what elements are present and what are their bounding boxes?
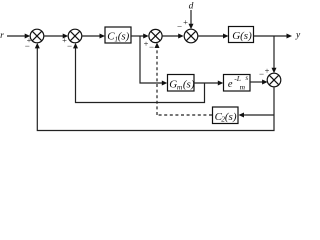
svg-text:+: + <box>265 65 270 75</box>
wire S4 to block G <box>198 34 229 39</box>
svg-text:+: + <box>183 17 188 27</box>
wire d to summer S4 <box>189 10 194 29</box>
summing junction S3 <box>149 29 162 42</box>
svg-text:−: − <box>177 22 182 32</box>
wire Gm to delay block <box>194 81 223 86</box>
svg-text:−: − <box>259 69 264 79</box>
svg-text:y: y <box>295 31 301 41</box>
wire G to output y <box>254 34 293 39</box>
wire outer loop S5 down and back to S1 <box>35 43 274 131</box>
node r (reference input label) <box>0 31 4 41</box>
wire inner loop Gm output down and back to S2 <box>73 43 205 103</box>
summing junction S2 <box>68 29 82 43</box>
wire S1 to summer S2 <box>44 34 68 39</box>
svg-text:m: m <box>240 82 246 91</box>
svg-text:s: s <box>245 74 248 82</box>
svg-text:(s): (s) <box>183 78 195 90</box>
svg-text:+: + <box>144 39 149 49</box>
model block Gm(s) <box>168 75 195 92</box>
svg-text:−: − <box>25 41 30 51</box>
wire S3 to summer S4 <box>162 34 184 39</box>
svg-text:−: − <box>67 41 72 51</box>
delay block e^-Lm s <box>224 74 251 92</box>
svg-text:r: r <box>0 31 4 41</box>
wire y tap down to summer S5 <box>272 36 277 73</box>
wire S5 branch to block C2 <box>239 113 275 118</box>
svg-text:e: e <box>228 79 233 90</box>
wire C1 output tap down to block Gm <box>140 36 167 86</box>
summing junction S5 <box>267 73 281 87</box>
wire S2 to block C1 <box>82 34 105 39</box>
wire delay block to summer S5 <box>250 80 268 85</box>
summing junction S1 <box>30 29 44 43</box>
wire C1 to summer S3 <box>131 34 149 39</box>
svg-text:(s): (s) <box>225 111 237 123</box>
summing junction S4 <box>184 29 198 43</box>
controller block C2(s) <box>213 107 239 124</box>
svg-text:−: − <box>149 42 154 52</box>
controller block C1(s) <box>105 27 131 43</box>
dashed wire C2 output back up to S3 <box>155 43 213 116</box>
svg-text:(s): (s) <box>118 31 130 43</box>
plant block G(s) <box>229 27 254 43</box>
wire r to summer S1 <box>7 34 30 39</box>
svg-text:G(s): G(s) <box>232 30 252 42</box>
